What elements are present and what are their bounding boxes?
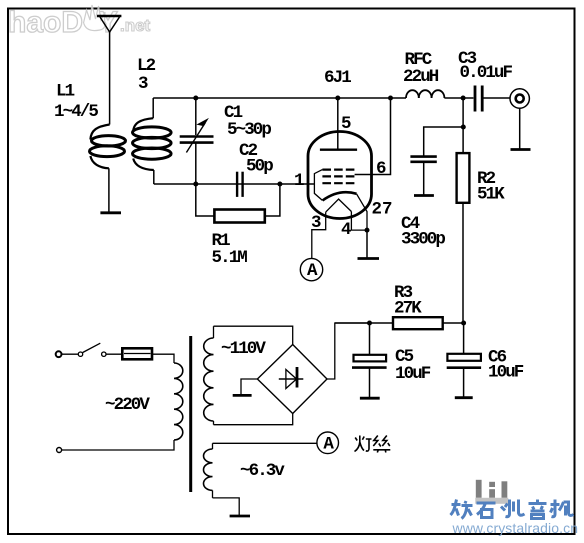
tube cathode arc xyxy=(323,192,357,200)
mains terminal upper xyxy=(56,351,62,357)
ground (L1) xyxy=(100,211,121,214)
tube plate (pin 5) xyxy=(320,98,357,150)
transformer primary winding xyxy=(174,363,183,440)
antenna xyxy=(97,16,121,125)
svg-text:5.1M: 5.1M xyxy=(212,248,248,268)
svg-text:.net: .net xyxy=(120,16,151,35)
capacitor C2 xyxy=(237,172,243,197)
svg-text:51K: 51K xyxy=(477,185,505,205)
node C2/R1 right xyxy=(277,182,282,187)
svg-text:6: 6 xyxy=(376,159,386,179)
ground (C5) xyxy=(360,397,380,400)
tube 6J1 envelope xyxy=(308,132,372,219)
filament (pins 3,4) xyxy=(312,199,367,258)
output jack xyxy=(510,89,529,108)
svg-text:22uH: 22uH xyxy=(403,67,439,87)
svg-text:~220V: ~220V xyxy=(105,395,150,415)
wire R3 right to C6 node xyxy=(443,322,464,324)
ground (6.3V) xyxy=(230,515,250,518)
svg-text:L1: L1 xyxy=(56,82,75,102)
transformer core xyxy=(189,336,192,492)
ground (jack) xyxy=(511,148,531,151)
capacitor C5 (electrolytic) xyxy=(352,323,387,397)
resistor R1 xyxy=(196,184,280,223)
svg-text:2: 2 xyxy=(372,200,382,220)
inductor RFC xyxy=(406,90,444,98)
node C5 xyxy=(367,321,372,326)
ground (C6) xyxy=(455,396,473,399)
node pin5 xyxy=(335,96,340,101)
node C1 top xyxy=(193,96,198,101)
wire B+ rail xyxy=(335,322,393,324)
transformer secondary 110V winding xyxy=(204,326,214,425)
svg-text:3300p: 3300p xyxy=(401,230,445,250)
svg-text:3: 3 xyxy=(311,213,321,233)
wire 6.3V top to meter xyxy=(213,442,317,444)
ground (cathode) xyxy=(358,257,380,260)
watermark haoDY.net xyxy=(8,5,151,39)
node C6 xyxy=(461,321,466,326)
node C4 branch xyxy=(461,125,466,130)
label 灯丝 (filament) xyxy=(355,436,391,453)
inductor L2 xyxy=(133,98,172,184)
svg-text:7: 7 xyxy=(382,200,392,220)
grid side rod xyxy=(314,170,322,201)
capacitor C3 xyxy=(475,86,482,112)
wire fuse to primary xyxy=(152,354,174,363)
svg-text:0.01uF: 0.01uF xyxy=(460,63,513,83)
svg-text:L2: L2 xyxy=(137,56,156,76)
capacitor C4 xyxy=(410,127,463,195)
svg-text:10uF: 10uF xyxy=(395,364,431,384)
mains terminal lower xyxy=(57,448,62,453)
resistor R3 xyxy=(393,317,443,329)
node C1 bottom xyxy=(193,182,198,187)
meter A (plate current) xyxy=(300,258,322,281)
wire RFC to C3 xyxy=(444,97,473,99)
pin 6 wire (screen grid) xyxy=(355,98,391,175)
wire jack to ground xyxy=(519,108,521,148)
svg-text:3: 3 xyxy=(138,74,148,94)
resistor R2 xyxy=(457,153,470,203)
wire to ground xyxy=(366,230,368,257)
wire node down to C4 node xyxy=(462,98,464,153)
svg-text:~6.3v: ~6.3v xyxy=(240,461,285,481)
svg-text:27K: 27K xyxy=(394,299,422,319)
svg-text:5~30p: 5~30p xyxy=(227,120,271,140)
watermark 矿石收音机 xyxy=(451,500,574,519)
ground (C4) xyxy=(414,194,434,197)
svg-text:www.crystalradio.cn: www.crystalradio.cn xyxy=(452,520,579,536)
bridge rectifier xyxy=(257,345,327,414)
svg-text:1: 1 xyxy=(294,171,304,191)
ground (bridge) xyxy=(233,394,252,397)
tube grid (dashed, pin 1) xyxy=(322,170,354,184)
wire C3 to jack xyxy=(482,97,510,99)
wire 110V bottom to bridge xyxy=(214,414,293,425)
inductor L1 xyxy=(90,125,126,169)
capacitor C1 (variable) xyxy=(180,98,214,184)
watermark logo blocks xyxy=(475,480,508,504)
node pins 2,4,7 xyxy=(365,228,370,233)
wire 110V top to bridge xyxy=(214,326,293,344)
wire primary bottom xyxy=(62,440,175,450)
svg-text:1~4/5: 1~4/5 xyxy=(54,102,98,122)
svg-text:50p: 50p xyxy=(246,157,273,177)
wire L1 bottom xyxy=(108,168,110,211)
node pin6 xyxy=(388,96,393,101)
svg-text:~110V: ~110V xyxy=(221,339,266,359)
bridge diode symbol xyxy=(279,367,304,389)
wire top rail xyxy=(153,97,406,99)
svg-text:6J1: 6J1 xyxy=(324,68,351,88)
wire bottom rail (grid) xyxy=(154,183,315,185)
svg-text:5: 5 xyxy=(341,114,351,134)
pins 2,7 wire xyxy=(357,194,368,230)
wire bridge plus to B+ rail xyxy=(327,323,370,379)
svg-text:10uF: 10uF xyxy=(488,363,524,383)
wire bridge minus to ground xyxy=(241,379,257,394)
node C3/R2 xyxy=(461,96,466,101)
transformer secondary 6.3V winding xyxy=(204,443,213,498)
meter A (filament) xyxy=(317,432,339,454)
switch xyxy=(78,343,122,356)
svg-text:haoD: haoD xyxy=(8,6,83,39)
wire to switch xyxy=(62,353,79,355)
fuse xyxy=(122,348,152,359)
svg-text:4: 4 xyxy=(341,220,351,240)
wire 6.3V bottom to ground xyxy=(213,498,240,515)
wire R2 bottom to B+ rail xyxy=(462,203,464,323)
capacitor C6 (electrolytic) xyxy=(447,323,481,397)
